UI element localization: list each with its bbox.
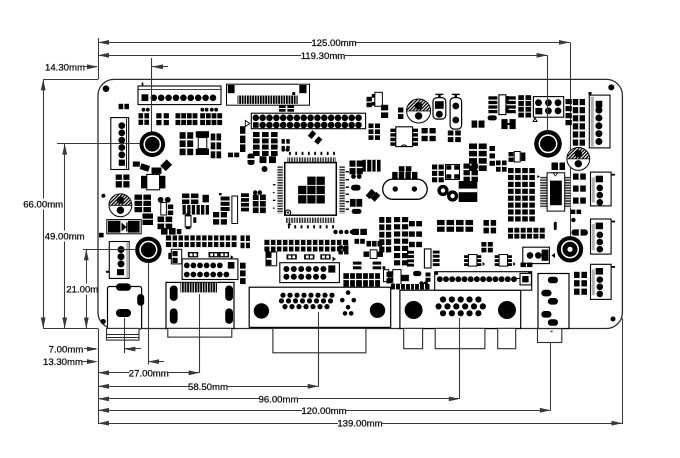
svg-text:49.00mm: 49.00mm — [45, 232, 85, 243]
svg-text:13.30mm: 13.30mm — [43, 357, 83, 368]
svg-text:27.00mm: 27.00mm — [129, 368, 169, 379]
svg-text:7.00mm: 7.00mm — [49, 345, 84, 356]
svg-text:139.00mm: 139.00mm — [337, 419, 382, 430]
svg-text:120.00mm: 120.00mm — [301, 406, 346, 417]
svg-text:58.50mm: 58.50mm — [188, 382, 228, 393]
svg-text:119.30mm: 119.30mm — [301, 51, 346, 62]
svg-text:14.30mm: 14.30mm — [45, 62, 85, 73]
svg-text:96.00mm: 96.00mm — [259, 394, 299, 405]
svg-text:66.00mm: 66.00mm — [23, 200, 63, 211]
svg-text:125.00mm: 125.00mm — [311, 38, 356, 49]
